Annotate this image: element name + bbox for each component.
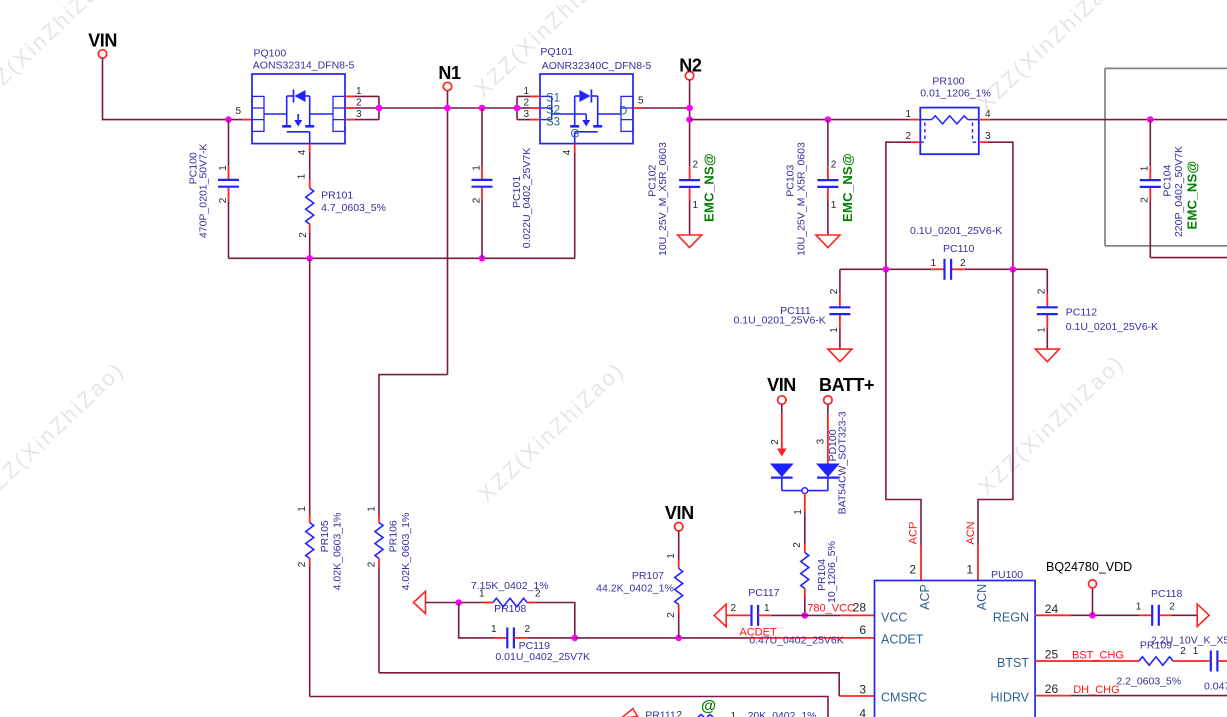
svg-text:3: 3 <box>523 109 529 120</box>
svg-text:2: 2 <box>693 160 699 171</box>
svg-text:1: 1 <box>693 200 699 211</box>
svg-text:1: 1 <box>831 200 837 211</box>
svg-text:1: 1 <box>764 603 770 614</box>
svg-text:2: 2 <box>1169 602 1175 613</box>
svg-text:S2: S2 <box>546 105 560 117</box>
svg-text:ACN: ACN <box>975 584 989 610</box>
svg-text:1: 1 <box>905 109 911 120</box>
svg-text:7.15K_0402_1%: 7.15K_0402_1% <box>471 580 549 592</box>
svg-text:EMC_NS@: EMC_NS@ <box>840 153 855 222</box>
svg-text:3: 3 <box>985 131 991 142</box>
svg-text:4.02K_0603_1%: 4.02K_0603_1% <box>400 513 412 591</box>
svg-text:4.7_0603_5%: 4.7_0603_5% <box>321 202 386 214</box>
svg-text:BATT+: BATT+ <box>819 375 874 395</box>
svg-text:CMSRC: CMSRC <box>881 691 927 705</box>
svg-text:3: 3 <box>815 438 826 444</box>
svg-text:2: 2 <box>1139 197 1150 203</box>
svg-text:1: 1 <box>829 327 840 333</box>
svg-text:S3: S3 <box>546 117 560 129</box>
svg-text:PQ100: PQ100 <box>254 48 287 60</box>
svg-text:2: 2 <box>666 612 677 618</box>
svg-text:PC117: PC117 <box>748 587 779 599</box>
svg-text:1: 1 <box>491 624 497 635</box>
svg-text:1: 1 <box>966 563 973 577</box>
svg-text:25: 25 <box>1045 648 1059 662</box>
svg-text:2: 2 <box>770 439 781 445</box>
svg-text:4: 4 <box>859 707 866 717</box>
svg-text:EMC_NS@: EMC_NS@ <box>702 153 717 222</box>
svg-text:20K_0402_1%: 20K_0402_1% <box>748 710 817 717</box>
svg-text:PC110: PC110 <box>943 243 974 255</box>
svg-text:AONS32314_DFN8-5: AONS32314_DFN8-5 <box>253 60 355 72</box>
svg-text:3: 3 <box>356 109 362 120</box>
svg-text:1: 1 <box>471 165 482 171</box>
svg-text:0.047U_0402: 0.047U_0402 <box>1204 680 1227 692</box>
svg-text:1: 1 <box>356 86 362 97</box>
svg-text:0.01U_0402_25V7K: 0.01U_0402_25V7K <box>495 651 590 663</box>
svg-text:2: 2 <box>366 561 377 567</box>
svg-text:PR100: PR100 <box>932 75 964 87</box>
svg-text:HIDRV: HIDRV <box>990 691 1029 705</box>
svg-text:4: 4 <box>985 109 991 120</box>
svg-text:44.2K_0402_1%: 44.2K_0402_1% <box>596 583 674 595</box>
svg-text:2: 2 <box>792 542 803 548</box>
svg-text:VIN: VIN <box>88 31 117 51</box>
svg-text:0.1U_0201_25V6-K: 0.1U_0201_25V6-K <box>1066 321 1158 333</box>
svg-text:5: 5 <box>235 106 241 117</box>
svg-text:0.1U_0201_25V6-K: 0.1U_0201_25V6-K <box>910 225 1002 237</box>
svg-text:1: 1 <box>1193 646 1199 657</box>
svg-text:ACDET: ACDET <box>881 633 924 647</box>
svg-text:10U_25V_M_X5R_0603: 10U_25V_M_X5R_0603 <box>657 142 669 256</box>
svg-text:2: 2 <box>831 160 837 171</box>
svg-text:PR111: PR111 <box>645 710 676 717</box>
svg-text:1: 1 <box>1036 327 1047 333</box>
svg-text:10U_25V_M_X5R_0603: 10U_25V_M_X5R_0603 <box>795 142 807 256</box>
svg-text:4.02K_0603_1%: 4.02K_0603_1% <box>332 513 344 591</box>
svg-text:2: 2 <box>356 98 362 109</box>
svg-text:PR109: PR109 <box>1140 640 1172 652</box>
svg-text:1: 1 <box>930 258 936 269</box>
svg-text:2: 2 <box>829 288 840 294</box>
svg-text:2: 2 <box>960 258 966 269</box>
svg-text:2: 2 <box>523 98 529 109</box>
svg-text:1: 1 <box>731 711 737 717</box>
svg-text:2: 2 <box>471 197 482 203</box>
svg-text:1: 1 <box>523 86 529 97</box>
svg-text:REGN: REGN <box>993 611 1029 625</box>
svg-text:S1: S1 <box>546 93 560 105</box>
svg-text:0.1U_0201_25V6-K: 0.1U_0201_25V6-K <box>734 315 826 327</box>
svg-text:1: 1 <box>297 506 308 512</box>
svg-text:4: 4 <box>297 149 308 155</box>
svg-text:1: 1 <box>1139 165 1150 171</box>
svg-text:EMC_NS@: EMC_NS@ <box>1185 161 1200 230</box>
svg-text:G: G <box>571 129 580 141</box>
svg-text:0.47U_0402_25V6K: 0.47U_0402_25V6K <box>749 634 844 646</box>
svg-text:BTST: BTST <box>997 656 1029 670</box>
svg-text:2: 2 <box>677 710 683 717</box>
svg-text:3: 3 <box>859 683 866 697</box>
svg-text:1: 1 <box>793 509 804 515</box>
svg-text:2: 2 <box>218 197 229 203</box>
svg-text:VIN: VIN <box>665 503 694 523</box>
svg-text:N1: N1 <box>438 63 461 83</box>
svg-text:2.2_0603_5%: 2.2_0603_5% <box>1116 675 1181 687</box>
svg-text:PC104: PC104 <box>1161 164 1173 196</box>
svg-text:2: 2 <box>298 232 309 238</box>
svg-text:1: 1 <box>218 165 229 171</box>
svg-text:26: 26 <box>1045 682 1059 696</box>
svg-text:ACN: ACN <box>965 521 977 544</box>
svg-text:ACP: ACP <box>908 522 920 545</box>
svg-text:220P_0402_50V7K: 220P_0402_50V7K <box>1173 146 1185 237</box>
svg-text:2: 2 <box>730 603 736 614</box>
svg-text:PR101: PR101 <box>321 190 353 202</box>
svg-text:PC112: PC112 <box>1066 307 1097 319</box>
svg-text:6: 6 <box>859 623 866 637</box>
svg-text:24: 24 <box>1045 602 1059 616</box>
svg-text:2: 2 <box>1036 288 1047 294</box>
svg-text:ACP: ACP <box>918 584 932 610</box>
svg-text:PR106: PR106 <box>387 520 399 552</box>
svg-text:@: @ <box>701 698 716 715</box>
svg-text:470P_0201_50V7-K: 470P_0201_50V7-K <box>197 144 209 239</box>
svg-text:VIN: VIN <box>767 375 796 395</box>
svg-text:2: 2 <box>905 131 911 142</box>
svg-text:1: 1 <box>666 553 677 559</box>
svg-text:780_VCC: 780_VCC <box>807 603 855 615</box>
svg-text:2: 2 <box>1180 646 1186 657</box>
svg-text:BQ24780_VDD: BQ24780_VDD <box>1046 560 1132 574</box>
svg-text:N2: N2 <box>679 56 702 76</box>
svg-text:PQ101: PQ101 <box>540 46 573 58</box>
svg-text:D: D <box>619 106 627 118</box>
svg-text:BST_CHG: BST_CHG <box>1072 650 1124 662</box>
svg-text:PR107: PR107 <box>632 570 664 582</box>
svg-text:PR105: PR105 <box>319 520 331 552</box>
svg-text:0.01_1206_1%: 0.01_1206_1% <box>920 88 991 100</box>
svg-text:5: 5 <box>638 96 644 107</box>
svg-text:2: 2 <box>297 561 308 567</box>
svg-text:2: 2 <box>525 624 531 635</box>
svg-text:BAT54CW_SOT323-3: BAT54CW_SOT323-3 <box>836 411 848 514</box>
svg-text:2: 2 <box>909 563 916 577</box>
svg-text:1: 1 <box>296 173 307 179</box>
svg-text:DH_CHG: DH_CHG <box>1073 684 1119 696</box>
svg-text:10_1206_5%: 10_1206_5% <box>826 541 838 603</box>
svg-text:1: 1 <box>1136 602 1142 613</box>
svg-text:PC118: PC118 <box>1151 588 1182 600</box>
svg-text:1: 1 <box>366 506 377 512</box>
svg-text:28: 28 <box>853 601 867 615</box>
svg-text:AONR32340C_DFN8-5: AONR32340C_DFN8-5 <box>542 60 652 72</box>
svg-text:PU100: PU100 <box>991 569 1023 581</box>
svg-text:PR108: PR108 <box>494 603 526 615</box>
svg-text:VCC: VCC <box>881 611 907 625</box>
svg-text:4: 4 <box>562 149 573 155</box>
svg-text:0.022U_0402_25V7K: 0.022U_0402_25V7K <box>521 148 533 248</box>
